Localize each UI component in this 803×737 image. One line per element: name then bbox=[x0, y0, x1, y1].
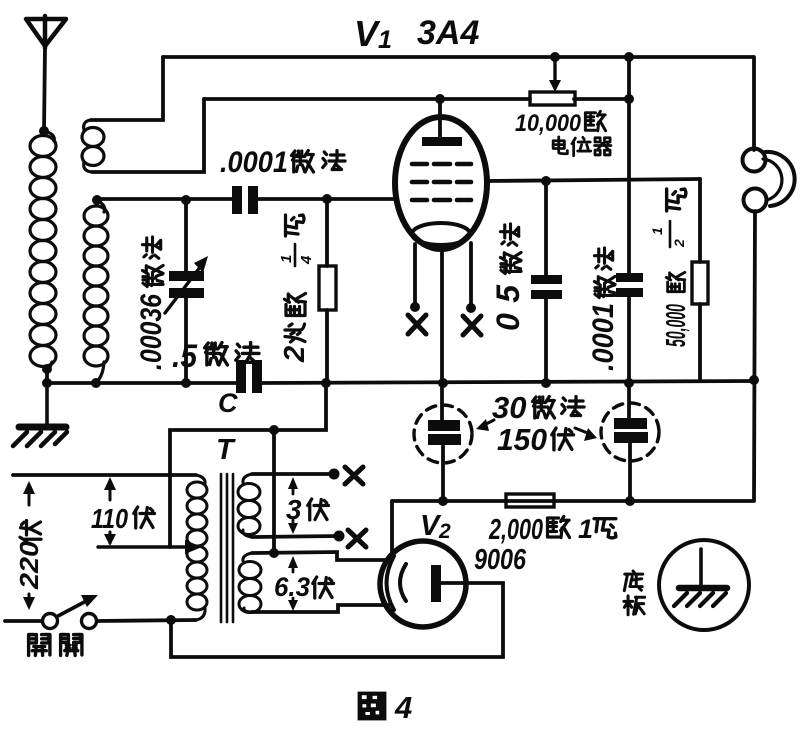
wire right column drop bbox=[627, 57, 631, 273]
wire filament feed jog bbox=[170, 383, 326, 547]
coil L3 tickler bbox=[82, 120, 104, 172]
tube V1 anode bar bbox=[422, 137, 462, 146]
wire screen line bbox=[487, 179, 700, 181]
label potentiometer bbox=[553, 137, 611, 156]
svg-text:1: 1 bbox=[278, 255, 295, 263]
transformer T 3V secondary bbox=[238, 474, 260, 537]
dimension arrow 220V bbox=[23, 481, 35, 610]
svg-text:50,000: 50,000 bbox=[660, 304, 691, 347]
node filament left end bbox=[410, 302, 420, 312]
wire B-minus line bbox=[392, 499, 753, 503]
label V2 bbox=[420, 510, 451, 543]
label 2000 ohm 1 watt bbox=[488, 514, 616, 546]
node ground-line left junction bbox=[42, 378, 52, 388]
dimension arrow 3V bbox=[288, 477, 298, 534]
capacitor C .5 microfarad bbox=[236, 360, 262, 393]
svg-text:1: 1 bbox=[378, 26, 392, 54]
wire 6.3V top lead bbox=[252, 552, 388, 560]
node coil bottom junction bbox=[42, 364, 52, 374]
label .0001 microfarad bbox=[220, 146, 345, 179]
tube V1 filament dome bbox=[412, 223, 470, 245]
svg-text:C: C bbox=[218, 388, 238, 418]
X mark 3V bottom bbox=[348, 530, 366, 547]
wire ground line right bbox=[262, 381, 756, 383]
label 10000 ohm bbox=[515, 110, 606, 137]
wire V1 filament center lead bbox=[440, 245, 444, 383]
resistor R3 2000 ohm bbox=[506, 494, 554, 507]
svg-text:2: 2 bbox=[279, 346, 311, 363]
wire 3V top tap bbox=[252, 472, 334, 476]
label 1/4 watt bbox=[278, 215, 315, 266]
svg-text:.0001: .0001 bbox=[587, 303, 620, 371]
svg-text:150: 150 bbox=[497, 422, 547, 457]
node L2 top junction bbox=[92, 195, 102, 205]
svg-text:9006: 9006 bbox=[474, 544, 527, 576]
headphones bbox=[743, 57, 795, 501]
node plate cap junction bbox=[435, 94, 445, 104]
svg-text:.00036: .00036 bbox=[135, 294, 168, 370]
wire V1 filament left lead bbox=[413, 244, 417, 307]
label 150 volt bbox=[497, 422, 597, 457]
label switch bbox=[29, 635, 82, 656]
node grid-line varcap junction bbox=[181, 195, 191, 205]
X mark 3V top bbox=[345, 467, 363, 484]
label figure 4 caption bbox=[358, 690, 413, 725]
node antenna-coil junction bbox=[39, 126, 49, 136]
wire V1 filament right lead bbox=[469, 243, 473, 308]
wire coil to ground line bbox=[45, 369, 49, 383]
node 3V bottom tap end bbox=[334, 531, 345, 542]
label V1 bbox=[354, 13, 392, 54]
label .05 microfarad bbox=[490, 224, 526, 331]
node ground line center junctions bbox=[321, 378, 634, 388]
wire plate cap lead bbox=[438, 99, 442, 141]
node filament right end bbox=[466, 303, 476, 313]
X mark filament left bbox=[408, 315, 426, 334]
label .5 microfarad bbox=[172, 338, 259, 374]
capacitor .0001 bypass right bbox=[616, 273, 643, 383]
label 50000 ohm 1/2 watt bbox=[649, 189, 691, 347]
node jog junction bbox=[269, 425, 279, 435]
svg-text:2: 2 bbox=[671, 239, 687, 248]
wire tickler top to plate-return corner bbox=[91, 57, 163, 120]
label 2 megohm bbox=[279, 294, 311, 364]
resistor R1 2 megohm bbox=[319, 199, 336, 383]
svg-text:10,000: 10,000 bbox=[515, 110, 582, 137]
svg-text:.5: .5 bbox=[172, 338, 198, 374]
wire grid line left bbox=[97, 197, 233, 201]
label chassis bbox=[624, 571, 645, 615]
coil L1 antenna coil bbox=[30, 131, 56, 369]
resistor R2 50000 ohm bbox=[692, 179, 708, 380]
wire 110V top line bbox=[13, 473, 196, 477]
node varcap ground junction bbox=[181, 378, 191, 388]
svg-text:4: 4 bbox=[394, 690, 412, 725]
label 110 volt bbox=[91, 503, 155, 534]
svg-text:.0001: .0001 bbox=[220, 146, 288, 179]
svg-text:1: 1 bbox=[578, 514, 593, 544]
label .0001 microfarad right bbox=[587, 248, 620, 371]
svg-text:T: T bbox=[216, 434, 236, 466]
dimension arrow 6.3V bbox=[288, 556, 298, 611]
svg-text:2,000: 2,000 bbox=[488, 514, 543, 546]
wire 6.3V bottom lead bbox=[252, 605, 389, 612]
label 220 volt bbox=[14, 521, 44, 591]
node plate line right end bbox=[624, 94, 634, 104]
antenna bbox=[26, 16, 66, 48]
node ground line right end bbox=[749, 375, 759, 385]
wire plate line bbox=[204, 97, 530, 101]
node B+ right junction bbox=[624, 52, 634, 62]
wire 110V tap with arrow bbox=[98, 540, 202, 554]
label .00036 microfarad bbox=[135, 237, 168, 370]
switch SW bbox=[5, 595, 196, 629]
chassis symbol circle bbox=[659, 540, 749, 630]
wire plate line right segment bbox=[574, 97, 629, 101]
coil L2 tuning secondary bbox=[84, 200, 108, 382]
label 6.3 volt bbox=[274, 572, 334, 602]
capacitor .0001 grid cap bbox=[232, 186, 258, 214]
wire B+ top line bbox=[163, 55, 753, 59]
variable capacitor C1 .00036 bbox=[165, 200, 208, 383]
potentiometer 10000 ohm bbox=[530, 60, 575, 105]
tube V2 envelope bbox=[380, 541, 466, 627]
electrolytic capacitor 30uF right bbox=[601, 383, 659, 501]
label 3 volt bbox=[286, 494, 329, 525]
tube V2 filament arcs bbox=[387, 556, 407, 610]
tube V2 plate bar bbox=[431, 565, 441, 602]
tube V1 envelope bbox=[395, 117, 487, 249]
X mark filament right bbox=[463, 316, 481, 335]
wire antenna lead bbox=[44, 48, 45, 131]
svg-text:220: 220 bbox=[14, 540, 44, 590]
ground (left earth) bbox=[13, 383, 67, 446]
wire ground line left bbox=[47, 381, 236, 385]
wire 3V bottom tap bbox=[252, 536, 339, 537]
wire tickler bottom riser bbox=[92, 99, 204, 172]
node grid-line resistor junction bbox=[322, 194, 332, 204]
tube V1 grid dashes bbox=[412, 164, 471, 200]
transformer T core bbox=[221, 474, 233, 622]
node 3V top tap end bbox=[329, 469, 340, 480]
svg-text:1: 1 bbox=[649, 227, 665, 235]
svg-text:4: 4 bbox=[298, 255, 315, 265]
capacitor .05 microfarad bbox=[531, 181, 562, 383]
svg-text:2: 2 bbox=[438, 520, 451, 543]
node screen line cap junction bbox=[541, 176, 551, 186]
dimension arrow 110V bbox=[104, 477, 116, 546]
svg-text:V: V bbox=[354, 13, 381, 54]
node switch line junction bbox=[166, 615, 176, 625]
node B-minus junction left bbox=[438, 496, 448, 506]
node B-minus junction right bbox=[625, 496, 635, 506]
node L2 bottom junction bbox=[91, 378, 101, 388]
svg-text:30: 30 bbox=[492, 390, 526, 425]
electrolytic capacitor 30uF left bbox=[414, 383, 472, 501]
svg-text:110: 110 bbox=[91, 503, 128, 534]
label 30 microfarad bbox=[476, 390, 584, 431]
wire V2 plate to bottom line bbox=[171, 583, 503, 657]
svg-text:3A4: 3A4 bbox=[417, 14, 479, 52]
wire jog to 6.3V tap bbox=[272, 430, 276, 553]
wire V2 plate feed bbox=[390, 501, 394, 557]
transformer T 6.3V secondary bbox=[239, 553, 261, 613]
node wiper top junction bbox=[550, 52, 560, 62]
node 6.3V tap junction bbox=[269, 548, 279, 558]
transformer T primary winding bbox=[187, 475, 207, 620]
wire grid line right bbox=[259, 197, 396, 201]
